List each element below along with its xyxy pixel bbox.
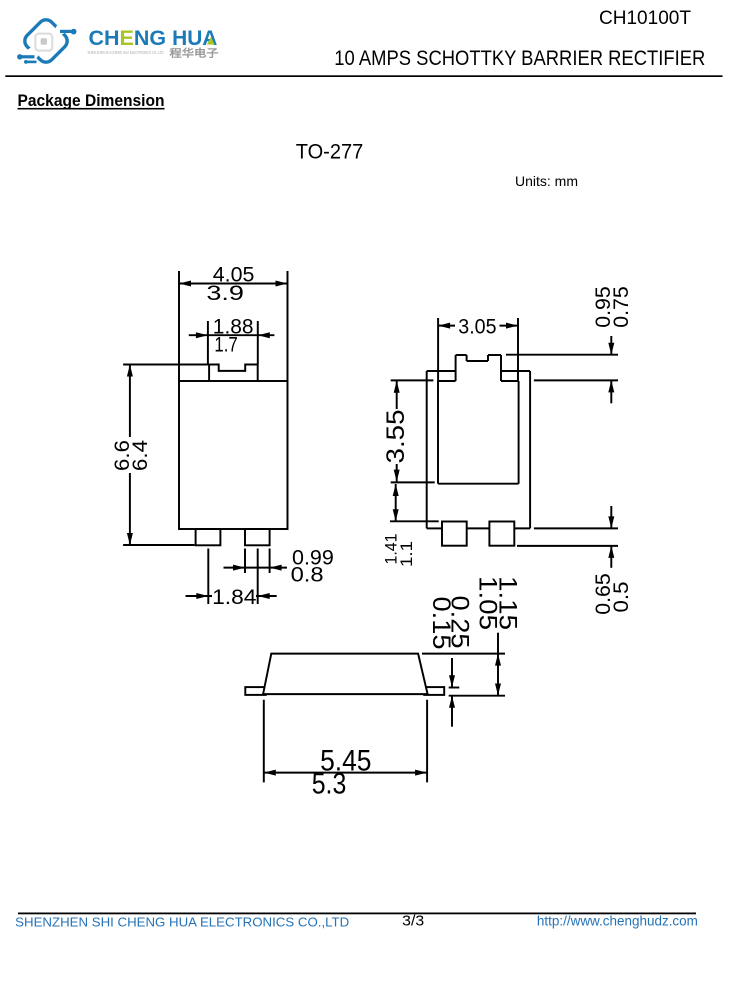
body profile trapezoid [263, 654, 428, 695]
dim 1.84 line [186, 595, 213, 597]
top tab with notch [209, 365, 258, 382]
dim 1.41/1.1 ext line [390, 520, 439, 522]
svg-text:CH10100T: CH10100T [599, 7, 691, 29]
svg-text:TO-277: TO-277 [296, 141, 364, 164]
dim 5.45/5.3 ext lines [263, 700, 265, 783]
logo icon diamond [17, 17, 76, 66]
svg-text:0.8: 0.8 [291, 564, 324, 587]
arrows side view [264, 770, 276, 776]
dim 1.41/1.1 line [395, 484, 397, 521]
svg-text:10 AMPS SCHOTTKY BARRIER RECTI: 10 AMPS SCHOTTKY BARRIER RECTIFIER [334, 47, 705, 70]
svg-text:0.25: 0.25 [446, 596, 474, 649]
svg-text:E: E [120, 26, 134, 50]
green triangle in A [207, 37, 215, 45]
svg-text:CH: CH [89, 26, 120, 50]
dim 0.95/0.75 line [610, 336, 612, 355]
dim 0.99/0.8 ext lines [244, 549, 246, 574]
dim 1.15/1.05 ext lines [422, 653, 505, 655]
dim 4.05/3.9 ext lines [178, 271, 180, 381]
dim 6.6/6.4 line [129, 365, 131, 438]
svg-text:5.3: 5.3 [312, 768, 347, 801]
pad tab [455, 355, 457, 381]
dim 6.6/6.4 ext lines [123, 364, 209, 366]
dim 0.95/0.75 ext lines [506, 354, 618, 356]
dim 0.99/0.8 line [224, 567, 288, 569]
arrows back view [438, 323, 450, 329]
svg-text:0.75: 0.75 [610, 286, 633, 328]
svg-text:1.7: 1.7 [214, 334, 237, 357]
svg-text:Package Dimension: Package Dimension [18, 92, 165, 110]
svg-text:1.15: 1.15 [494, 576, 522, 630]
dim 0.65/0.5 line [610, 506, 612, 528]
dim 0.25/0.15 ext line [449, 687, 460, 689]
dim 3.05 ext lines [437, 318, 439, 381]
svg-text:3.9: 3.9 [206, 282, 244, 305]
leads [245, 687, 265, 695]
dim 3.55 line [396, 381, 398, 409]
svg-text:0.5: 0.5 [610, 582, 633, 613]
dim 3.05 line [438, 325, 455, 327]
svg-text:1.84: 1.84 [212, 586, 257, 609]
svg-text:SHENZHEN SHI CHENG HUA ELECTRO: SHENZHEN SHI CHENG HUA ELECTRONICS CO.,L… [15, 915, 349, 930]
dim 1.84 ext lines [207, 549, 209, 605]
svg-text:3.55: 3.55 [382, 410, 410, 464]
svg-text:6.4: 6.4 [129, 440, 152, 471]
dim 0.25/0.15 line [451, 658, 453, 687]
dim 0.65/0.5 ext lines [534, 527, 618, 529]
dim 3.55 ext lines [391, 379, 434, 381]
svg-text:3/3: 3/3 [402, 913, 424, 930]
svg-text:NG: NG [134, 26, 166, 50]
footer rule [18, 913, 696, 915]
dim 1.88/1.7 ext lines [207, 321, 209, 364]
dim 1.15/1.05 line [497, 633, 499, 696]
dim 1.88/1.7 line [189, 334, 275, 336]
left pin [196, 529, 221, 545]
bottom pads [442, 522, 467, 546]
dim 4.05/3.9 line [179, 283, 288, 285]
svg-text:Units: mm: Units: mm [515, 173, 578, 189]
package body [179, 381, 288, 529]
outer body outline [426, 371, 428, 528]
dim 5.45/5.3 line [264, 772, 427, 774]
header rule [5, 75, 722, 77]
right pin [245, 529, 270, 545]
exposed pad [437, 381, 439, 484]
svg-text:3.05: 3.05 [458, 316, 496, 339]
svg-text:程华电子: 程华电子 [170, 47, 220, 60]
arrows front view [179, 281, 191, 287]
svg-text:1.1: 1.1 [397, 541, 416, 567]
svg-text:SHEN ZHEN SHI CHENG HUA ELECTR: SHEN ZHEN SHI CHENG HUA ELECTRONICS CO.,… [88, 50, 164, 55]
brand text [89, 26, 218, 50]
svg-text:http://www.chenghudz.com: http://www.chenghudz.com [537, 913, 698, 928]
